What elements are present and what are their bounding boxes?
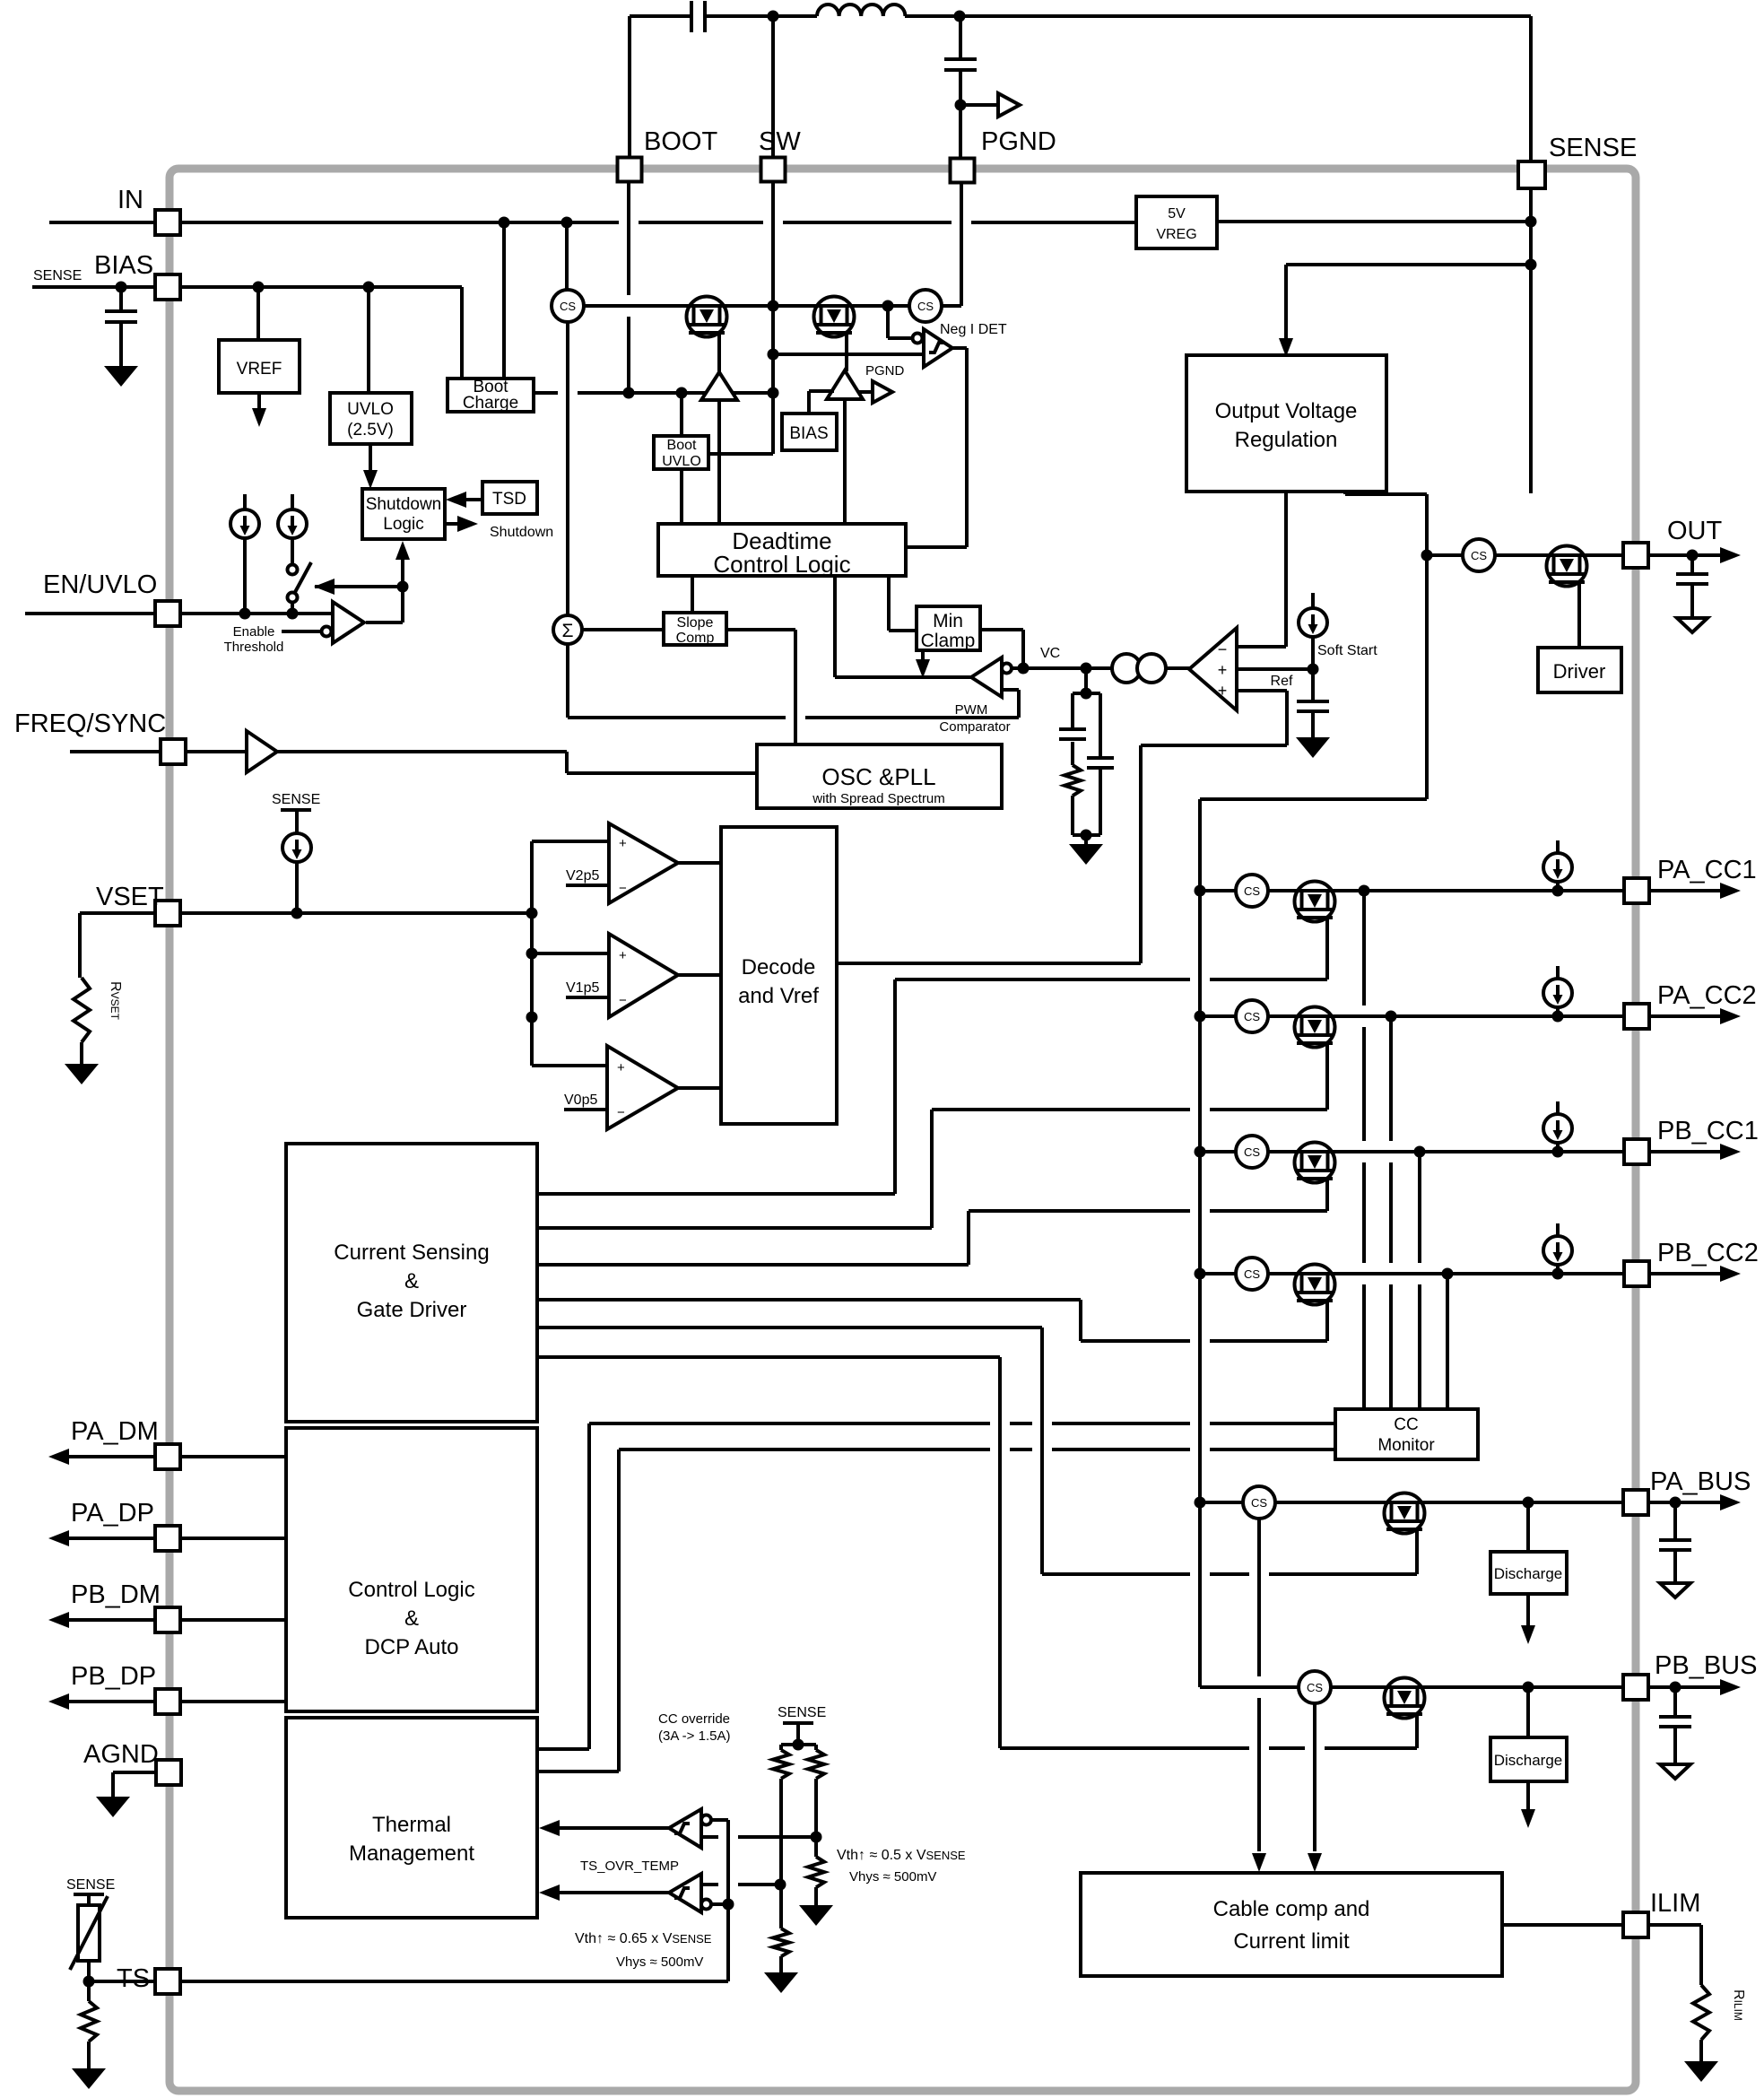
svg-text:VREG: VREG xyxy=(1156,227,1196,242)
ground (BIAS cap) xyxy=(104,366,138,387)
svg-text:Management: Management xyxy=(349,1841,474,1866)
buffer EN comparator xyxy=(333,602,364,643)
resistor RVSET xyxy=(80,911,155,915)
wire CC override 2 xyxy=(619,1448,990,1451)
capacitor C-softstart xyxy=(1297,700,1329,703)
svg-text:VSET: VSET xyxy=(96,883,164,911)
arrow into OVR box xyxy=(1279,338,1293,357)
ground (RVSET) xyxy=(65,1064,99,1084)
buffer FREQ xyxy=(186,750,247,753)
arrow PA_CC1 xyxy=(1649,889,1721,892)
block Driver xyxy=(1538,648,1621,692)
svg-text:TS: TS xyxy=(117,1964,150,1993)
svg-text:Comp: Comp xyxy=(676,631,715,646)
wire CC monitor tap 4 xyxy=(1446,1274,1449,1409)
capacitor C-PB_BUS xyxy=(1673,1687,1677,1715)
current source I-PA_CC1 xyxy=(1556,840,1560,856)
svg-text:BIAS: BIAS xyxy=(789,424,828,443)
mosfet Q-PA_BUS xyxy=(1384,1493,1425,1534)
pin PB_BUS xyxy=(1623,1675,1648,1700)
wire SENSE to Output Voltage Regulation xyxy=(1286,263,1531,266)
wire gate tap PA_BUS xyxy=(1415,1529,1419,1574)
wire BIAS to driver2 xyxy=(807,391,811,414)
svg-text:Gate Driver: Gate Driver xyxy=(357,1298,467,1322)
svg-text:Enable: Enable xyxy=(233,624,275,640)
pin PA_CC1 xyxy=(1624,878,1649,903)
svg-text:+: + xyxy=(619,836,627,851)
svg-text:&: & xyxy=(404,1269,419,1293)
pin PGND xyxy=(951,159,975,183)
pin PA_BUS xyxy=(1623,1490,1648,1515)
node VC/MinClamp xyxy=(1018,663,1030,675)
current sense CS1 xyxy=(552,290,584,322)
arrow into Cable comp 1 xyxy=(1252,1853,1266,1872)
svg-text:PWM: PWM xyxy=(955,702,988,718)
current sense CS-PA_CC1 xyxy=(1236,875,1268,907)
wire PA_BUS ext xyxy=(1648,1501,1721,1504)
pin PA_DP xyxy=(67,1537,286,1540)
arrow discharge PA xyxy=(1521,1625,1535,1644)
wire PWM lower input loop xyxy=(1002,688,1019,692)
svg-text:−: − xyxy=(1218,640,1228,658)
ground (OUT, open) xyxy=(1677,618,1708,632)
svg-text:CC: CC xyxy=(1394,1415,1418,1434)
wire CS2 to PGND pin xyxy=(942,304,961,308)
mosfet Q-PB_BUS xyxy=(1384,1678,1425,1719)
svg-text:OSC &PLL: OSC &PLL xyxy=(821,763,935,790)
node VC/comp xyxy=(1081,663,1092,675)
pin PA_DM xyxy=(67,1455,286,1458)
current sense CS-PA_BUS xyxy=(1243,1486,1275,1519)
ground (div2) xyxy=(799,1905,833,1926)
svg-text:−: − xyxy=(619,993,627,1008)
svg-text:PGND: PGND xyxy=(981,127,1056,156)
block TSD xyxy=(482,482,537,514)
capacitor Ccomp2 xyxy=(1099,693,1102,756)
svg-text:CC override: CC override xyxy=(658,1711,730,1727)
pin VSET xyxy=(155,901,180,926)
svg-text:with Spread Spectrum: with Spread Spectrum xyxy=(812,791,945,806)
node SW/NegIDET xyxy=(768,349,779,361)
wire Deadtime to Min Clamp xyxy=(887,576,891,631)
svg-text:RVSET: RVSET xyxy=(108,981,123,1021)
wire CC monitor tap 2 xyxy=(1389,1016,1393,1141)
switch S1 xyxy=(288,565,298,575)
wire CS-PB_BUS sense down xyxy=(1313,1703,1316,1851)
driver buffer Q2 xyxy=(827,370,863,399)
block Boot UVLO xyxy=(654,436,708,469)
svg-text:PA_CC1: PA_CC1 xyxy=(1657,856,1757,884)
wire Min Clamp to VC xyxy=(980,628,1023,631)
svg-text:PB_CC1: PB_CC1 xyxy=(1657,1117,1759,1145)
block Thermal Management xyxy=(286,1718,537,1918)
node IN/CS tap xyxy=(561,217,573,229)
node 438/BootUVLO xyxy=(676,387,688,399)
svg-text:Ref: Ref xyxy=(1271,674,1293,689)
wire VREG to SENSE vertical xyxy=(1217,220,1531,223)
pin EN/UVLO xyxy=(25,612,155,615)
ground (PB_BUS, open) xyxy=(1660,1764,1690,1779)
wire HS rail xyxy=(584,304,909,308)
svg-text:RILIM: RILIM xyxy=(1731,1989,1746,2021)
svg-text:5V: 5V xyxy=(1168,206,1186,222)
svg-text:Current limit: Current limit xyxy=(1233,1929,1350,1954)
svg-text:PB_BUS: PB_BUS xyxy=(1655,1651,1757,1680)
svg-text:Shutdown: Shutdown xyxy=(366,495,442,514)
mosfet Q1 (high side) xyxy=(686,297,727,337)
svg-text:and Vref: and Vref xyxy=(738,984,819,1008)
mosfet Q-OUT xyxy=(1546,546,1587,587)
svg-text:+: + xyxy=(619,948,627,963)
wire PB_BUS ext xyxy=(1648,1685,1721,1689)
capacitor C-PA_BUS xyxy=(1673,1502,1677,1538)
svg-text:IN: IN xyxy=(117,186,143,214)
svg-text:Σ: Σ xyxy=(562,621,574,641)
block Cable comp and Current limit xyxy=(1081,1873,1502,1976)
resistor Rdiv1a xyxy=(779,1745,783,1750)
pin SW xyxy=(761,158,786,182)
open arrow VOUT xyxy=(998,93,1020,117)
svg-text:ILIM: ILIM xyxy=(1650,1889,1700,1918)
wire buffer out to Shutdown Logic xyxy=(366,621,403,624)
wire rail PA_BUS xyxy=(1200,1501,1625,1504)
pin FREQ/SYNC xyxy=(70,750,161,753)
wire gate E (PA_BUS) xyxy=(537,1326,1042,1329)
wire soft start to plus input xyxy=(1237,667,1313,671)
block Min Clamp xyxy=(917,606,980,650)
svg-text:+: + xyxy=(1218,682,1228,700)
svg-text:Thermal: Thermal xyxy=(372,1813,451,1837)
wire driver2 to Deadtime xyxy=(843,399,847,524)
arrow Min Clamp clamp xyxy=(921,650,925,661)
coupler circles xyxy=(1112,654,1141,683)
svg-text:PA_DP: PA_DP xyxy=(71,1499,154,1528)
error amplifier xyxy=(1086,666,1189,670)
wire IN to Boot Charge xyxy=(502,222,506,379)
wire Deadtime to Slope Comp xyxy=(691,576,694,613)
svg-text:SENSE: SENSE xyxy=(1549,134,1637,162)
capacitor C-OUT ext xyxy=(1690,555,1694,572)
svg-text:BOOT: BOOT xyxy=(644,127,717,156)
arrow UVLO to Shutdown Logic xyxy=(369,444,372,472)
current sense CS-PB_BUS xyxy=(1299,1671,1331,1703)
node SW top junction xyxy=(768,11,779,22)
comparator V2p5 xyxy=(532,840,609,843)
wire driver1 to Deadtime xyxy=(717,400,721,524)
wire BootUVLO top feed xyxy=(680,393,683,436)
svg-text:PGND: PGND xyxy=(865,363,905,379)
svg-text:(3A -> 1.5A): (3A -> 1.5A) xyxy=(658,1728,730,1744)
svg-text:PB_CC2: PB_CC2 xyxy=(1657,1239,1759,1267)
wire PWM out to Deadtime xyxy=(833,576,837,677)
node 438/SW xyxy=(768,387,779,399)
wire VSET rail xyxy=(180,911,532,915)
wire TS to comparators xyxy=(180,1980,728,1983)
wire NegIDET out to Deadtime xyxy=(952,346,967,350)
ground (comp network) xyxy=(1084,835,1088,844)
wire CC monitor tap 3 xyxy=(1418,1152,1421,1263)
arrow PB_CC2 xyxy=(1649,1272,1721,1275)
block Current Sensing & Gate Driver xyxy=(286,1144,537,1422)
current sense CS2 xyxy=(909,290,942,322)
svg-text:Monitor: Monitor xyxy=(1377,1436,1435,1455)
wire V0p5 out xyxy=(678,1086,721,1090)
svg-text:+: + xyxy=(617,1060,625,1075)
current source I-PB_CC2 xyxy=(1556,1223,1560,1239)
wire rail PB_CC2 xyxy=(1200,1272,1625,1275)
svg-text:Control Logic: Control Logic xyxy=(348,1578,474,1602)
svg-text:TSD: TSD xyxy=(492,490,526,509)
wire OVR to main bus xyxy=(1343,492,1347,494)
block UVLO (2.5V) xyxy=(367,287,370,393)
pin OUT xyxy=(1623,543,1648,568)
wire Boot Charge output rail xyxy=(534,391,558,395)
svg-text:Regulation: Regulation xyxy=(1235,428,1338,452)
wire gate C (PB_CC1) xyxy=(537,1263,969,1267)
comparator PWM xyxy=(971,657,1002,697)
node SW/rail xyxy=(768,300,779,312)
svg-text:UVLO: UVLO xyxy=(662,454,701,469)
wire BIAS rail xyxy=(180,285,462,289)
svg-text:Threshold: Threshold xyxy=(224,640,284,655)
wire SW vertical xyxy=(771,181,775,454)
wire to VOUT open arrow xyxy=(960,103,998,107)
svg-text:Control Logic: Control Logic xyxy=(713,551,850,578)
svg-text:Output Voltage: Output Voltage xyxy=(1215,399,1358,423)
svg-text:Vth↑ ≈ 0.5 x VSENSE: Vth↑ ≈ 0.5 x VSENSE xyxy=(837,1848,966,1863)
wire gate tap PA_CC2 xyxy=(1325,1043,1329,1110)
svg-text:Neg I DET: Neg I DET xyxy=(940,322,1007,337)
wire V1p5 out xyxy=(678,973,721,977)
arrow comp1 to Thermal xyxy=(560,1826,669,1830)
block Shutdown Logic xyxy=(362,489,445,539)
ground (PA_BUS, open) xyxy=(1660,1583,1690,1597)
arrow comp2 to Thermal xyxy=(560,1891,669,1894)
svg-text:Vhys ≈ 500mV: Vhys ≈ 500mV xyxy=(849,1869,936,1885)
svg-text:Comparator: Comparator xyxy=(939,719,1010,735)
wire FREQ to OSC xyxy=(277,750,567,753)
svg-text:V2p5: V2p5 xyxy=(566,868,599,884)
resistor R-TS xyxy=(81,2001,97,2041)
ground (TS divider) xyxy=(72,2068,106,2089)
svg-text:AGND: AGND xyxy=(83,1740,159,1769)
comparator Neg I DET xyxy=(886,306,890,338)
node IN/BootCharge tap xyxy=(499,217,510,229)
svg-text:UVLO: UVLO xyxy=(347,400,394,419)
current source I1 xyxy=(243,494,247,509)
svg-text:EN/UVLO: EN/UVLO xyxy=(43,570,157,599)
svg-text:PB_DM: PB_DM xyxy=(71,1580,161,1609)
svg-text:Vhys ≈ 500mV: Vhys ≈ 500mV xyxy=(616,1954,703,1970)
resistor Rdiv1b xyxy=(773,1928,789,1956)
wire BOOT pin vertical xyxy=(627,181,630,295)
block OSC & PLL xyxy=(757,744,1002,808)
mosfet Q-PB_CC2 xyxy=(1294,1265,1335,1305)
node inductor/output junction xyxy=(954,11,966,22)
block Deadtime Control Logic xyxy=(658,524,906,576)
pin BOOT xyxy=(618,158,642,182)
pin PB_CC2 xyxy=(1624,1261,1649,1286)
open arrow PGND xyxy=(858,390,873,394)
current sense CS-OUT xyxy=(1463,539,1495,571)
svg-text:Discharge: Discharge xyxy=(1494,1752,1563,1769)
compensation network at VC xyxy=(1084,668,1088,693)
wire V2p5 out xyxy=(678,861,721,865)
pin AGND xyxy=(156,1760,181,1785)
driver buffer Q1 xyxy=(701,372,737,400)
wire OUT external xyxy=(1648,553,1721,557)
wire comp1 input xyxy=(701,1835,718,1839)
comparator TS overtemp 1 xyxy=(711,1818,728,1822)
svg-text:Driver: Driver xyxy=(1553,660,1606,683)
wire OVR to error amp minus xyxy=(1284,492,1288,647)
wire BOOT pin to top rail xyxy=(628,16,631,158)
wire SW to Boot UVLO xyxy=(708,452,773,456)
svg-text:Soft Start: Soft Start xyxy=(1317,643,1377,658)
svg-text:−: − xyxy=(617,1105,625,1120)
svg-text:SENSE: SENSE xyxy=(778,1705,826,1720)
block BIAS xyxy=(782,414,837,450)
capacitor C-BIAS xyxy=(116,282,127,293)
block Discharge PB xyxy=(1526,1687,1530,1737)
svg-text:V0p5: V0p5 xyxy=(564,1093,597,1108)
svg-text:V1p5: V1p5 xyxy=(566,980,599,996)
wire gate tap PB_BUS xyxy=(1415,1714,1419,1748)
arrow PA_CC2 xyxy=(1649,1014,1721,1018)
comparator V0p5 xyxy=(532,1064,607,1067)
wire Enable Threshold stub xyxy=(282,630,321,633)
current source I-PB_CC1 xyxy=(1556,1101,1560,1117)
svg-text:SENSE: SENSE xyxy=(33,268,82,283)
svg-text:VC: VC xyxy=(1040,646,1060,661)
current source I-PA_CC2 xyxy=(1556,966,1560,981)
wire VC node xyxy=(1012,666,1193,670)
wire SENSE pin vertical xyxy=(1529,188,1533,493)
svg-text:−: − xyxy=(619,881,627,896)
ground (AGND) xyxy=(96,1797,130,1817)
wire CS-PA_BUS sense down xyxy=(1257,1519,1261,1676)
svg-text:&: & xyxy=(404,1606,419,1631)
node switch/shutdown xyxy=(397,581,409,593)
wire rail PB_CC1 xyxy=(1200,1150,1625,1153)
capacitor Ccomp1 xyxy=(1071,693,1074,727)
arrow PB_BUS xyxy=(1720,1679,1741,1695)
wire Q1 gate xyxy=(717,333,721,373)
wire CS1 top feed xyxy=(565,222,569,290)
resistor Rdiv2a xyxy=(814,1745,818,1750)
resistor Rdiv2b xyxy=(808,1857,824,1887)
mosfet Q-PA_CC2 xyxy=(1294,1007,1335,1048)
arrow Shutdown output xyxy=(445,522,459,526)
wire comp2 input xyxy=(701,1883,718,1886)
svg-text:SW: SW xyxy=(759,127,801,156)
current source Soft Start xyxy=(1311,593,1315,608)
capacitor C-OUT (top) xyxy=(959,16,962,57)
block 5V VREG xyxy=(1136,196,1217,248)
wire EN rail xyxy=(180,612,333,615)
svg-text:Current Sensing: Current Sensing xyxy=(334,1241,489,1265)
wire BIAS to Boot Charge xyxy=(460,287,464,379)
wire bus down-left xyxy=(1200,797,1427,801)
mosfet Q2 (low side) xyxy=(813,297,855,337)
wire Ref input path xyxy=(1237,689,1287,692)
wire gate F (PB_BUS) xyxy=(537,1355,1000,1359)
arrow PA_BUS xyxy=(1720,1494,1741,1510)
wire rail PA_CC2 xyxy=(1200,1014,1625,1018)
arrow OUT xyxy=(1720,547,1741,563)
node rail/NegIDET tap xyxy=(882,300,894,312)
capacitor C-BOOT (top) xyxy=(630,14,691,18)
wire Q-OUT gate to Driver xyxy=(1577,582,1581,648)
svg-text:Shutdown: Shutdown xyxy=(490,525,553,540)
node output cap junction xyxy=(955,100,967,111)
wire rail PA_CC1 xyxy=(1200,889,1625,892)
comparator bus xyxy=(530,841,534,1066)
comparator V1p5 xyxy=(532,952,609,955)
arrow TSD to Shutdown Logic xyxy=(463,498,482,501)
node BIAS/UVLO xyxy=(363,282,375,293)
svg-text:Charge: Charge xyxy=(463,394,518,413)
block VREF xyxy=(256,287,260,340)
summer sigma xyxy=(566,322,569,615)
pin PA_CC2 xyxy=(1624,1004,1649,1029)
svg-text:SENSE: SENSE xyxy=(66,1877,115,1893)
pin PB_DP xyxy=(67,1700,286,1703)
wire gate A (PA_CC1) xyxy=(537,1192,895,1196)
current sense CS-PB_CC2 xyxy=(1236,1258,1268,1290)
svg-text:DCP Auto: DCP Auto xyxy=(365,1635,459,1659)
svg-text:Discharge: Discharge xyxy=(1494,1565,1563,1582)
ground (RILIM) xyxy=(1684,2061,1718,2082)
wire SW pin vertical to top rail xyxy=(771,16,775,158)
svg-text:PA_BUS: PA_BUS xyxy=(1650,1467,1751,1496)
pin TS xyxy=(89,1980,155,1983)
wire slope comp to OSC xyxy=(726,628,795,631)
arrow into Shutdown Logic bottom xyxy=(395,541,410,560)
node SENSE/VREG xyxy=(1525,216,1537,228)
pin PB_CC1 xyxy=(1624,1139,1649,1164)
wire gate B (PA_CC2) xyxy=(537,1226,932,1230)
node BIAS/VREF xyxy=(253,282,265,293)
block Output Voltage Regulation xyxy=(1186,355,1386,492)
svg-text:+: + xyxy=(1218,661,1228,679)
comparator TS overtemp 2 xyxy=(669,1874,701,1912)
svg-text:PA_CC2: PA_CC2 xyxy=(1657,981,1757,1010)
pin IN xyxy=(49,221,155,224)
arrow into Cable comp 2 xyxy=(1308,1853,1322,1872)
ground (soft start) xyxy=(1296,737,1330,758)
wire rail PB_BUS xyxy=(1200,1685,1625,1689)
svg-text:Vth↑ ≈ 0.65 x VSENSE: Vth↑ ≈ 0.65 x VSENSE xyxy=(575,1931,712,1946)
svg-text:Cable comp and: Cable comp and xyxy=(1213,1897,1370,1921)
resistor RILIM xyxy=(1648,1923,1701,1927)
wire sigma to slope comp xyxy=(582,628,664,631)
svg-text:PB_DP: PB_DP xyxy=(71,1662,156,1691)
arrow below VREF xyxy=(257,393,261,409)
wire top rail to SENSE pin xyxy=(960,14,1531,18)
block Decode and Vref xyxy=(721,827,837,1124)
block Slope Comp xyxy=(664,613,726,645)
current sense CS-PA_CC2 xyxy=(1236,1000,1268,1032)
arrow switch control xyxy=(315,585,403,588)
wire gate tap PB_CC1 xyxy=(1325,1179,1329,1211)
node SENSE/OVR tap xyxy=(1525,259,1537,271)
current source I2 xyxy=(291,494,294,509)
inductor L1 xyxy=(773,14,817,18)
pin PB_DM xyxy=(67,1618,286,1622)
node 438/BOOT xyxy=(623,387,635,399)
resistor Rcomp xyxy=(1071,742,1074,765)
